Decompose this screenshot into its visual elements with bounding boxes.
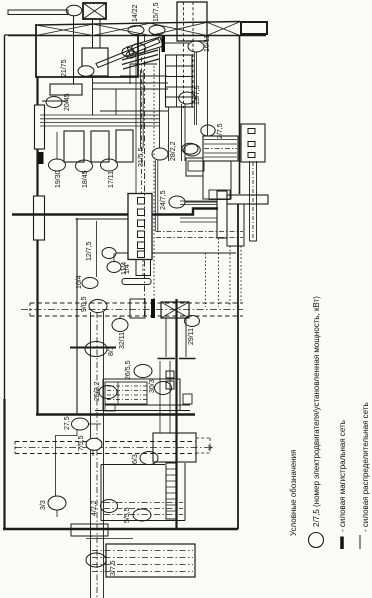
svg-text:16/11: 16/11	[204, 35, 211, 52]
band left cap	[29, 303, 31, 316]
cabinet box with squares	[241, 124, 265, 162]
block right cell	[183, 394, 192, 404]
box below cable box	[203, 161, 231, 199]
motor circle 4/2,2	[101, 500, 118, 513]
room wall top	[76, 218, 137, 220]
band centerline	[21, 309, 243, 311]
wire 24/7,5 right	[185, 201, 217, 203]
motor circle 10/4	[82, 278, 98, 289]
crane rail thin bar	[8, 10, 68, 15]
grid machine legs	[168, 107, 170, 161]
svg-text:14/22: 14/22	[132, 4, 139, 22]
motor circle 24/7,5	[169, 196, 185, 208]
hall bottom edge extension	[120, 75, 167, 77]
branch line y253	[116, 252, 236, 254]
stub 7/5,5	[92, 450, 94, 456]
motor circle 2/7,5	[201, 125, 215, 136]
lower room rect	[101, 463, 185, 521]
arrow on centerline	[208, 446, 212, 450]
dashdot vertical pair partner	[141, 57, 143, 194]
block divider	[117, 382, 119, 405]
motor circle 32/11	[112, 319, 128, 332]
motor circle 19/30	[49, 159, 66, 171]
X-box legs	[166, 318, 186, 357]
unnamed circle below	[182, 143, 198, 154]
wire 27,5 to 3/3	[56, 430, 78, 496]
svg-text:5/5,5: 5/5,5	[124, 507, 131, 523]
post rect	[217, 191, 227, 238]
panel lower box	[136, 260, 151, 276]
block inner dashed rect	[105, 382, 147, 404]
svg-text:18/45: 18/45	[82, 170, 89, 188]
room wall left	[76, 218, 78, 414]
svg-text:3/3: 3/3	[40, 500, 47, 510]
bottom rect with dashdots	[106, 544, 195, 577]
motor circle 17/11	[101, 159, 118, 171]
wires from 13/7,5 down	[182, 104, 186, 161]
truss diagonals	[36, 22, 240, 36]
wall black blob	[39, 152, 44, 164]
small rect left of box	[188, 161, 204, 171]
svg-text:21/75: 21/75	[61, 59, 68, 77]
small frame below slant machine	[130, 64, 157, 84]
stub wires to motors	[57, 132, 109, 162]
box below band	[227, 204, 244, 246]
dotted vertical	[153, 66, 155, 299]
svg-text:2/7,5: 2/7,5	[217, 123, 224, 139]
motor circle 11/4	[107, 262, 121, 273]
link line to 16/11	[165, 42, 189, 44]
motor circle 26/5,5	[134, 365, 152, 378]
dashdot lines in lower room	[104, 503, 183, 515]
svg-text:4/2,2: 4/2,2	[91, 500, 98, 516]
long heavy vertical	[175, 299, 177, 528]
hanger strip	[250, 161, 257, 241]
svg-text:28/2,2: 28/2,2	[170, 141, 177, 161]
svg-text:11/4: 11/4	[121, 262, 128, 275]
stub 11/4	[113, 253, 115, 261]
legend thin line symbol	[359, 535, 361, 549]
dashed lines in tall rect	[184, 2, 194, 108]
building bottom thick wall	[3, 528, 238, 531]
svg-text:13/7,5: 13/7,5	[194, 85, 201, 105]
truss bottom chord	[8, 35, 266, 37]
legend thick line symbol	[340, 537, 344, 550]
wire 27,5 right	[89, 423, 102, 425]
motor circle 14/22	[128, 26, 144, 35]
conveyor centerline	[96, 312, 98, 598]
slanted small ellipse	[125, 50, 137, 60]
motor circle 27,5	[72, 418, 89, 430]
svg-text:31/5,5: 31/5,5	[138, 147, 145, 167]
grid machine	[166, 55, 193, 107]
arm circle b	[132, 44, 146, 54]
dashdot pair to right	[156, 232, 243, 238]
wire to 10/4	[96, 221, 98, 277]
motor circle 18/45	[76, 160, 93, 172]
distribution panel box	[128, 194, 152, 260]
dashed conveyor band mid	[30, 303, 243, 316]
solid vertical from slant machine	[135, 57, 137, 193]
slanted machine body	[127, 37, 164, 56]
svg-text:30/3: 30/3	[149, 379, 156, 393]
svg-text:17/11: 17/11	[108, 171, 115, 188]
truss top chord	[36, 22, 240, 26]
cable box	[203, 136, 238, 161]
mid thick wall horizontal	[36, 413, 195, 415]
motor circle 13/7,5	[179, 92, 196, 104]
svg-text:8/1: 8/1	[108, 346, 115, 356]
wire tall rect corner down	[207, 41, 209, 136]
svg-text:7/5,5: 7/5,5	[78, 435, 85, 451]
legend motor symbol	[309, 533, 324, 548]
panel squares	[138, 198, 145, 258]
machine arm diagonal	[96, 39, 160, 68]
outer frame top segment	[5, 34, 37, 36]
end block small rect	[241, 22, 267, 34]
leg end bars	[158, 358, 196, 360]
motor circle 5/5,5	[133, 509, 151, 521]
hoist wire down	[73, 16, 75, 84]
motor circle 28/2,2	[184, 144, 201, 156]
hoist circle	[66, 5, 82, 15]
conveyor strip verticals	[91, 312, 104, 598]
heavy bar top	[162, 36, 166, 52]
svg-text:- силовая распределительная се: - силовая распределительная сеть	[361, 402, 370, 532]
motor circle 20/45	[46, 97, 62, 108]
small square b	[166, 381, 174, 389]
motor 8/1 ellipse	[85, 342, 107, 357]
svg-text:29/11: 29/11	[188, 328, 195, 345]
right wall vertical	[237, 204, 239, 529]
arm circle a	[122, 48, 134, 57]
twin wires from 31/5,5	[155, 160, 158, 232]
svg-text:24/7,5: 24/7,5	[160, 190, 167, 210]
wire 32/11	[119, 316, 121, 319]
slot bar below panel	[122, 279, 151, 285]
heavy black bar on band	[151, 299, 155, 318]
svg-text:10/4: 10/4	[76, 275, 83, 289]
motor circle 29/11	[185, 316, 200, 327]
motor circle 7/5,5	[86, 438, 102, 450]
machine 21/75 motor circle	[78, 66, 94, 76]
long dashdot vertical	[144, 36, 146, 319]
crossing rect on strip	[71, 524, 108, 536]
8/1 heavy line	[70, 347, 116, 349]
motor circle 16/11	[188, 41, 204, 52]
tall hall rect top	[177, 2, 207, 41]
svg-text:25/2,2: 25/2,2	[94, 381, 101, 401]
X-box machine 29/11	[161, 302, 189, 318]
motor circle 6/3	[140, 452, 158, 465]
svg-text:32/11: 32/11	[119, 332, 126, 349]
motor circle 9/0,5	[89, 300, 107, 313]
svg-text:- силовая магистральная сеть: - силовая магистральная сеть	[338, 420, 347, 532]
machine base row 2	[91, 131, 109, 162]
motor circle 31/5,5	[152, 148, 168, 160]
base under 28/2,2	[186, 158, 203, 176]
wire 16/11 down	[195, 52, 197, 125]
short line below crossing	[86, 538, 133, 540]
stub 3/3	[56, 510, 58, 517]
thin cables into post	[180, 201, 217, 222]
small square a	[166, 371, 174, 378]
block bottom lines	[95, 405, 190, 411]
svg-text:3/7,5: 3/7,5	[110, 560, 117, 576]
small rect left of heavy bar	[130, 299, 145, 318]
main feeder line	[12, 209, 218, 215]
machine base 20/45	[50, 84, 82, 95]
ladder rect	[166, 463, 176, 519]
svg-text:Условные обозначения: Условные обозначения	[289, 450, 298, 536]
svg-text:20/45: 20/45	[64, 93, 71, 111]
svg-text:15/7,5: 15/7,5	[153, 2, 160, 22]
motor circle 12/7,5	[102, 248, 116, 259]
inner rect bottom	[209, 190, 230, 200]
dashed band lower	[15, 442, 196, 454]
dotted verticals down	[206, 238, 242, 307]
column 2	[34, 196, 45, 240]
svg-text:2/7,5 (номер электродвигателя/: 2/7,5 (номер электродвигателя/установлен…	[312, 296, 321, 527]
svg-text:12/7,5: 12/7,5	[86, 241, 93, 261]
svg-text:6/3: 6/3	[132, 454, 139, 464]
trolley column lines	[93, 19, 101, 48]
solid box right of band	[153, 433, 196, 462]
band rect	[227, 195, 268, 204]
cable bundle from wall	[40, 115, 160, 126]
motor circle 25/2,2	[99, 386, 117, 399]
big machine hall rect	[36, 24, 138, 77]
duct lines right of machine	[93, 77, 169, 115]
motor circle 3/3	[48, 496, 66, 510]
svg-text:27,5: 27,5	[64, 416, 71, 430]
machine block outline	[103, 379, 180, 411]
svg-text:9/0,5: 9/0,5	[81, 296, 88, 312]
vertical line right of grid	[239, 36, 241, 194]
motor circle 15/7,5	[149, 25, 165, 34]
machine base row 1	[64, 131, 84, 162]
machine base row 3	[116, 130, 133, 162]
wire pair to 31/5,5	[141, 70, 144, 148]
motor circle 3/7,5	[86, 553, 106, 567]
line through 20/45	[42, 100, 68, 102]
machine 21/75 body	[82, 48, 108, 76]
wire slant to 31/5,5	[159, 48, 161, 148]
svg-text:19/30: 19/30	[55, 170, 62, 188]
legs continue to box	[160, 361, 170, 433]
outer frame left wall	[4, 35, 6, 400]
svg-text:26/5,5: 26/5,5	[125, 360, 132, 380]
column 1	[35, 105, 45, 149]
motor circle 30/3	[155, 382, 172, 395]
slanted bars	[122, 50, 159, 69]
dashed ext of box	[196, 438, 210, 453]
wire 12/7,5 drop	[129, 215, 131, 253]
hoist X-box	[83, 3, 106, 19]
small rect on strip	[105, 404, 115, 411]
inner thick wall vertical	[36, 76, 38, 414]
